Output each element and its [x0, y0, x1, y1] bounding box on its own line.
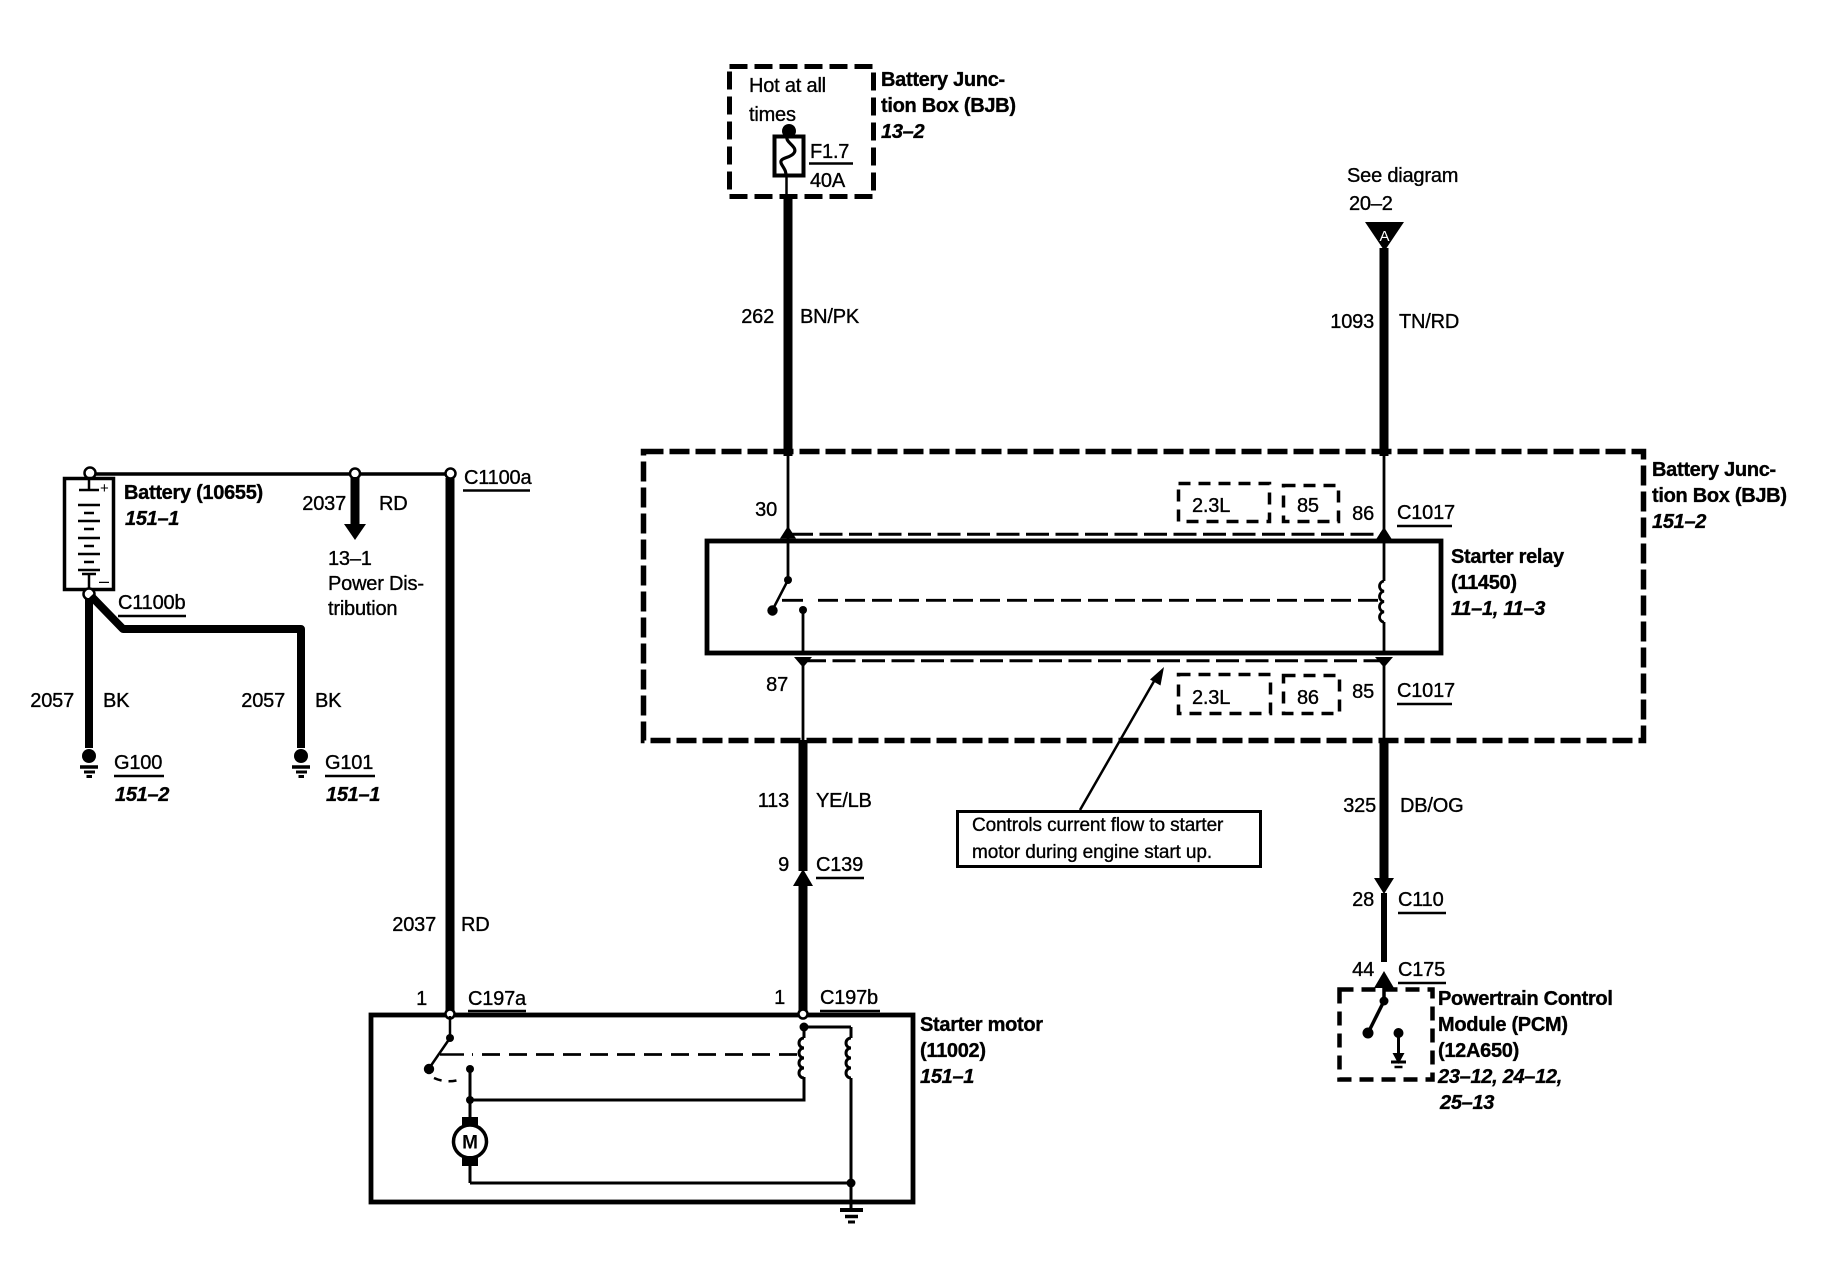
dashed pin row upper (30 to 86) — [790, 533, 1384, 536]
connector C175 arrow — [1374, 971, 1394, 1000]
wire C139 to starter motor C197b — [799, 884, 808, 1013]
svg-text:C197b: C197b — [820, 987, 878, 1009]
wire 325 DB/OG from relay pin 85 to C110 — [1380, 740, 1389, 880]
svg-text:113: 113 — [758, 790, 789, 812]
wire 2057 BK battery negative to G101 — [91, 596, 301, 748]
label: Starter motor (11002) 151-1 — [920, 1014, 1043, 1088]
svg-text:151–2: 151–2 — [1652, 511, 1706, 533]
svg-text:M: M — [462, 1133, 478, 1154]
svg-text:151–1: 151–1 — [326, 784, 380, 806]
fuse F1.7 — [775, 124, 804, 194]
option box 2.3L upper — [1179, 484, 1270, 522]
starter motor box outline — [371, 1015, 913, 1202]
svg-text:30: 30 — [755, 499, 777, 521]
svg-text:151–2: 151–2 — [115, 784, 169, 806]
svg-text:YE/LB: YE/LB — [816, 790, 872, 812]
label: 1 C197a — [416, 988, 527, 1011]
svg-text:Battery (10655): Battery (10655) — [124, 482, 263, 504]
label: pin 30 — [755, 499, 777, 521]
svg-text:2037: 2037 — [302, 493, 346, 515]
label: Powertrain Control Module (PCM) (12A650) 23-12, 24-12, 25-13 — [1437, 988, 1613, 1114]
battery negative terminal node — [84, 589, 95, 600]
label: C1100a — [463, 467, 532, 491]
connector C139 arrow — [793, 869, 813, 886]
label: 85 C1017 — [1352, 680, 1455, 704]
svg-text:2.3L: 2.3L — [1192, 687, 1230, 709]
wire C110 to C175 — [1381, 893, 1387, 962]
svg-text:Starter relay: Starter relay — [1451, 546, 1565, 568]
label: 13-1 Power Distribution — [328, 548, 424, 620]
svg-text:(12A650): (12A650) — [1438, 1040, 1519, 1062]
label: Hot at all times — [749, 75, 826, 126]
svg-text:23–12, 24–12,: 23–12, 24–12, — [1437, 1066, 1562, 1088]
dashed pin row lower (87 to 85) — [803, 659, 1384, 662]
svg-text:Hot at all: Hot at all — [749, 75, 826, 97]
label: F1.7 / 40A value — [809, 141, 853, 192]
motor M — [454, 1117, 487, 1183]
fuse box enclosure Hot at all times (BJB 13-2) — [730, 67, 874, 197]
wire 2037 RD C1100a to starter motor C197a — [446, 478, 455, 1013]
svg-text:tion Box (BJB): tion Box (BJB) — [881, 95, 1016, 117]
svg-text:See diagram: See diagram — [1347, 165, 1458, 187]
svg-text:times: times — [749, 104, 796, 126]
label: 9 C139 — [778, 854, 864, 878]
note box: controls current flow — [958, 812, 1261, 867]
label: 1 C197b — [774, 987, 880, 1011]
label: 2057 BK left — [30, 690, 130, 712]
label: Battery Junction Box (BJB) 151-2 — [1652, 459, 1787, 533]
pin 86 lead with arrow — [1376, 456, 1392, 581]
svg-text:C175: C175 — [1398, 959, 1445, 981]
svg-text:C197a: C197a — [468, 988, 527, 1010]
svg-text:tion Box (BJB): tion Box (BJB) — [1652, 485, 1787, 507]
svg-text:13–2: 13–2 — [881, 121, 924, 143]
ground G101 — [292, 749, 310, 777]
wire 2057 BK battery negative to G100 — [85, 598, 93, 748]
svg-text:G101: G101 — [325, 752, 373, 774]
svg-text:Battery Junc-: Battery Junc- — [881, 69, 1005, 91]
svg-text:+: + — [100, 480, 109, 497]
label: 325 DB/OG — [1343, 795, 1463, 817]
label: 44 C175 — [1352, 959, 1446, 983]
option box 86 lower — [1284, 676, 1340, 714]
svg-text:2037: 2037 — [392, 914, 436, 936]
junction node 2037 tap — [350, 469, 360, 479]
svg-text:86: 86 — [1352, 503, 1374, 525]
svg-text:C1017: C1017 — [1397, 502, 1455, 524]
svg-text:86: 86 — [1297, 687, 1319, 709]
starter contact to motor wire — [466, 1065, 474, 1117]
label: 2037 RD lower — [392, 914, 489, 936]
label: pin 87 — [766, 674, 788, 696]
label: Starter relay (11450) 11-1, 11-3 — [1451, 546, 1565, 620]
label: G101 151-1 — [325, 752, 380, 806]
svg-text:25–13: 25–13 — [1439, 1092, 1494, 1114]
svg-text:Battery Junc-: Battery Junc- — [1652, 459, 1776, 481]
svg-text:(11002): (11002) — [920, 1040, 986, 1062]
pin 85 lead with arrow — [1375, 622, 1393, 740]
svg-text:BK: BK — [315, 690, 342, 712]
svg-text:151–1: 151–1 — [920, 1066, 974, 1088]
svg-text:BN/PK: BN/PK — [800, 306, 860, 328]
wire motor bottom to ground junction — [470, 1179, 856, 1188]
svg-text:C1100b: C1100b — [118, 592, 185, 614]
connector C197b node — [799, 1010, 808, 1019]
ground G100 — [80, 749, 98, 777]
svg-text:–: – — [99, 571, 109, 591]
svg-text:G100: G100 — [114, 752, 162, 774]
solenoid plunger dashed arc — [434, 1078, 462, 1081]
svg-text:87: 87 — [766, 674, 788, 696]
label: 1093 TN/RD — [1330, 311, 1459, 333]
label: 2057 BK right — [241, 690, 342, 712]
wire coil1 top to coil2 top — [804, 1026, 851, 1029]
starter motor ground — [840, 1210, 863, 1222]
svg-text:RD: RD — [379, 493, 408, 515]
powertrain control module (PCM) dashed box — [1340, 990, 1433, 1080]
label: Battery (10655) 151-1 — [124, 482, 263, 530]
svg-text:11–1, 11–3: 11–1, 11–3 — [1451, 598, 1545, 620]
solenoid linkage dashed line — [440, 1053, 797, 1056]
svg-text:A: A — [1379, 228, 1389, 245]
svg-text:RD: RD — [461, 914, 490, 936]
note arrow to starter relay — [1080, 667, 1164, 810]
svg-text:TN/RD: TN/RD — [1399, 311, 1459, 333]
label: G100 151-2 — [114, 752, 169, 806]
label: 28 C110 — [1352, 889, 1446, 913]
option box 85 upper — [1284, 486, 1339, 522]
pin 30 lead with arrow — [780, 456, 796, 578]
label: Battery Junction Box (BJB) 13-2 — [881, 69, 1016, 143]
connector C110 arrow — [1374, 878, 1394, 894]
relay coil — [1380, 581, 1384, 622]
svg-text:Powertrain Control: Powertrain Control — [1438, 988, 1613, 1010]
label: 113 YE/LB — [758, 790, 872, 812]
connector C197a node — [446, 1010, 455, 1019]
wire 262 BN/PK from fuse to BJB — [784, 194, 793, 456]
svg-text:C1017: C1017 — [1397, 680, 1455, 702]
relay switch contacts — [767, 576, 792, 616]
svg-text:85: 85 — [1297, 495, 1319, 517]
svg-text:Starter motor: Starter motor — [920, 1014, 1043, 1036]
PCM internal ground — [1391, 1028, 1406, 1067]
wire battery positive to C1100a — [90, 472, 450, 476]
relay actuation dashed line — [782, 599, 1378, 602]
label: 2037 RD — [302, 493, 407, 515]
svg-text:F1.7: F1.7 — [810, 141, 849, 163]
label: 86 C1017 — [1352, 502, 1455, 526]
svg-text:C139: C139 — [816, 854, 863, 876]
wire 113 YE/LB from relay pin 87 to C139 — [799, 740, 808, 871]
svg-text:262: 262 — [741, 306, 774, 328]
off-page connector triangle A — [1365, 222, 1404, 251]
svg-text:tribution: tribution — [328, 598, 397, 620]
battery junction box (BJB 151-2) dashed enclosure — [644, 452, 1644, 741]
pin 87 lead with arrow — [794, 606, 812, 740]
svg-text:Power Dis-: Power Dis- — [328, 573, 424, 595]
svg-text:(11450): (11450) — [1451, 572, 1517, 594]
wire 1093 TN/RD from triangle A to BJB — [1380, 248, 1389, 456]
option box 2.3L lower — [1179, 675, 1271, 714]
svg-text:2057: 2057 — [241, 690, 285, 712]
wire 2037 RD arrow to power distribution — [344, 477, 366, 540]
battery positive terminal node — [85, 468, 96, 479]
battery (10655) — [65, 478, 114, 591]
svg-text:1093: 1093 — [1330, 311, 1374, 333]
label: 262 BN/PK — [741, 306, 860, 328]
wire junction to case ground — [850, 1183, 853, 1208]
solenoid coil 2 — [846, 1027, 851, 1183]
svg-text:151–1: 151–1 — [125, 508, 179, 530]
svg-text:2.3L: 2.3L — [1192, 495, 1230, 517]
wire contact junction to coil 1 — [470, 1077, 804, 1100]
svg-text:40A: 40A — [810, 170, 846, 192]
svg-text:325: 325 — [1343, 795, 1376, 817]
svg-text:85: 85 — [1352, 681, 1374, 703]
svg-text:Controls current flow to start: Controls current flow to starter — [972, 815, 1224, 836]
svg-text:motor during engine start up.: motor during engine start up. — [972, 842, 1212, 863]
svg-text:9: 9 — [778, 854, 789, 876]
starter motor solenoid switch — [424, 1016, 454, 1074]
connector C1100a node — [446, 469, 456, 479]
svg-text:BK: BK — [103, 690, 130, 712]
svg-text:C1100a: C1100a — [464, 467, 532, 489]
label: C1100b — [118, 592, 186, 616]
svg-text:1: 1 — [416, 988, 427, 1010]
starter relay box outline — [707, 541, 1441, 653]
PCM internal switch — [1363, 997, 1389, 1039]
svg-text:1: 1 — [774, 987, 785, 1009]
svg-text:20–2: 20–2 — [1349, 193, 1393, 215]
svg-text:C110: C110 — [1398, 889, 1444, 911]
svg-text:28: 28 — [1352, 889, 1374, 911]
svg-text:44: 44 — [1352, 959, 1374, 981]
label: See diagram 20-2 — [1347, 165, 1458, 215]
svg-text:DB/OG: DB/OG — [1400, 795, 1463, 817]
svg-text:2057: 2057 — [30, 690, 74, 712]
solenoid coil 1 — [799, 1023, 809, 1079]
svg-text:Module (PCM): Module (PCM) — [1438, 1014, 1568, 1036]
svg-text:13–1: 13–1 — [328, 548, 372, 570]
